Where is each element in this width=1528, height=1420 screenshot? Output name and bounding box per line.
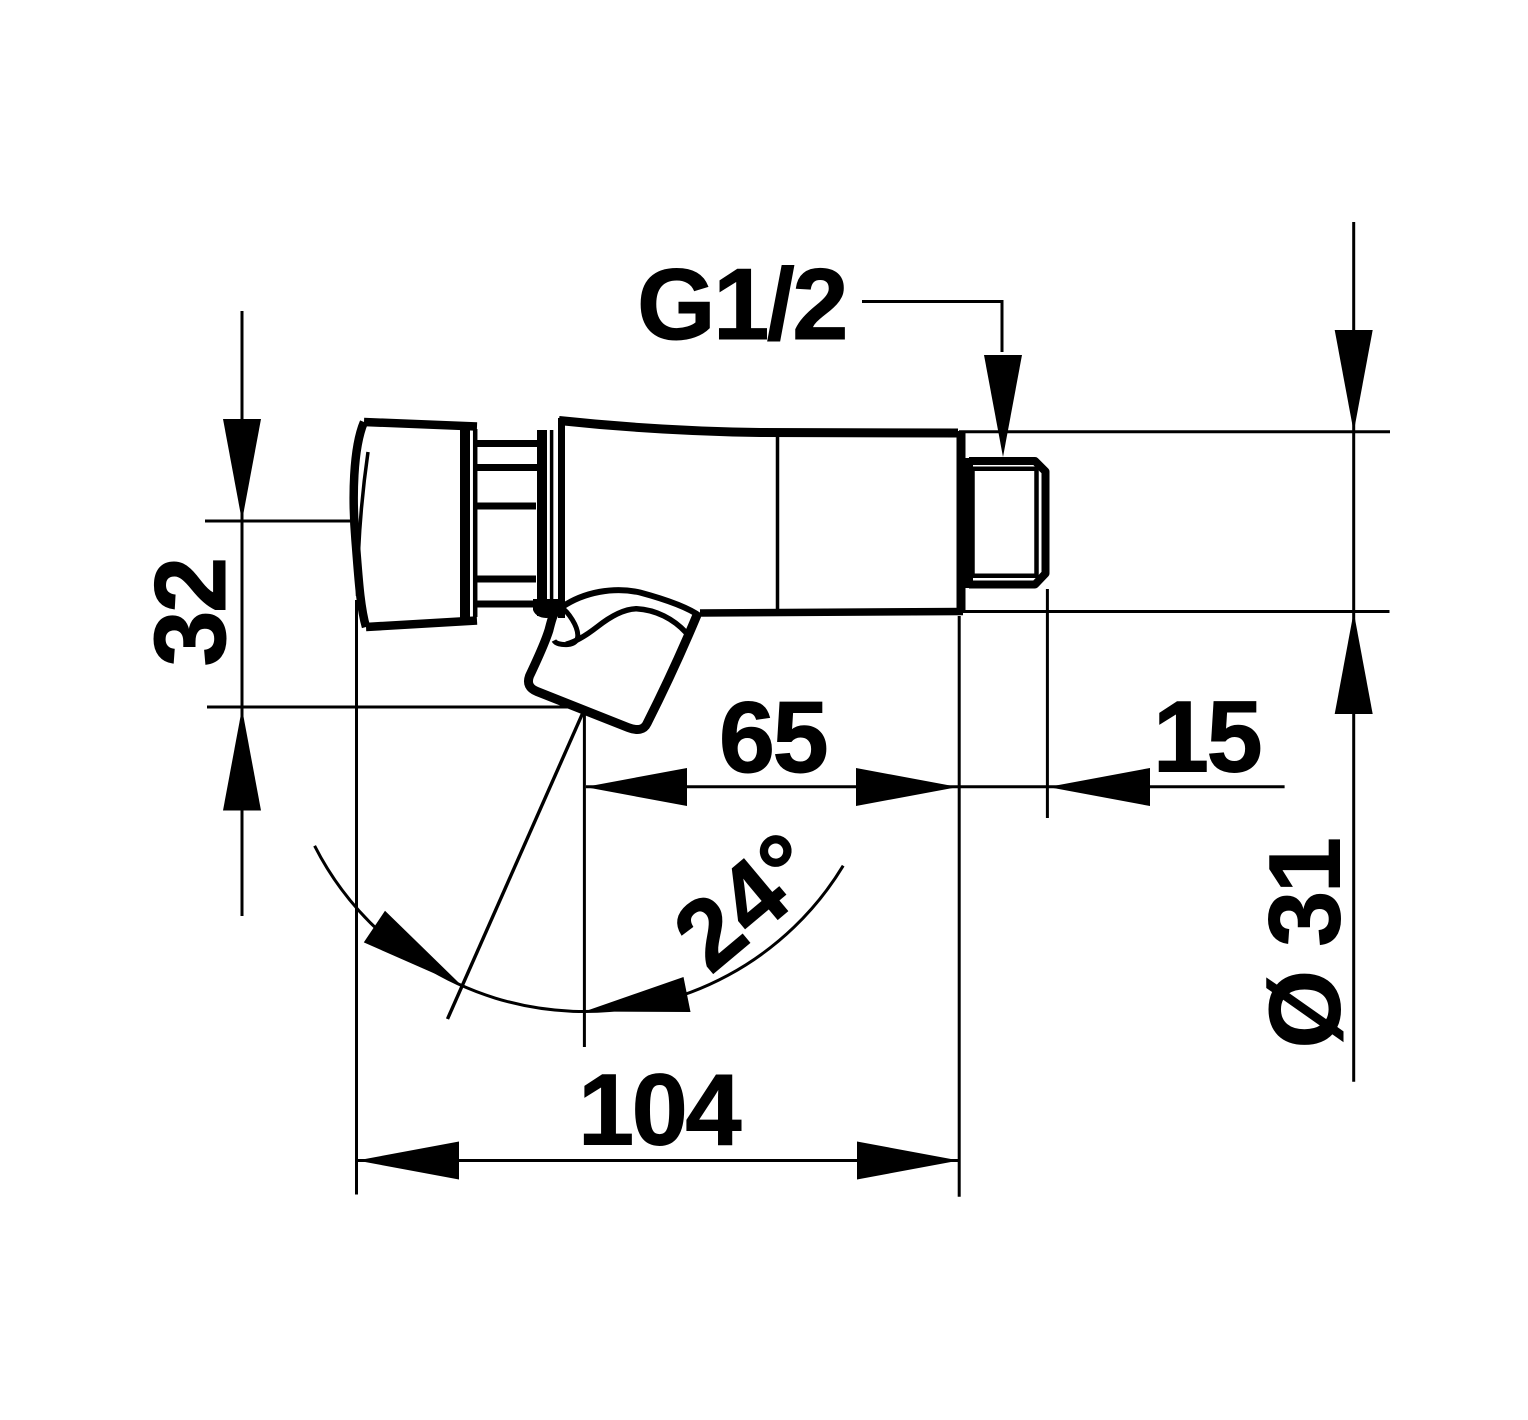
- dimension 32 arrow lower: [223, 709, 261, 811]
- dimension diameter 31 line: [1352, 222, 1355, 1082]
- angle 24 slant line: [448, 709, 585, 1019]
- svg-text:65: 65: [719, 682, 827, 794]
- dimension 104 extension line right: [958, 616, 961, 1197]
- angle 24 reference vertical line: [583, 708, 586, 1047]
- dimension 104 extension line left: [355, 600, 358, 1195]
- angle 24 arrow left: [364, 911, 462, 986]
- svg-text:15: 15: [1153, 682, 1261, 794]
- dimension 32 extension line lower: [207, 706, 584, 709]
- flange: [542, 430, 552, 616]
- dimension diameter 31 extension line upper: [959, 430, 1390, 433]
- G1/2 leader arrow: [984, 355, 1022, 457]
- push button cap: [354, 422, 477, 627]
- dimension 65 arrow left: [585, 768, 687, 806]
- dimension 104 arrow left: [357, 1142, 459, 1180]
- dimension 15 extension line: [1046, 589, 1049, 818]
- neck grooves: [477, 444, 538, 605]
- threaded nipple G1/2: [969, 458, 1046, 588]
- dimension diameter 31 extension line lower: [963, 610, 1390, 613]
- dimension 65/15 line: [586, 785, 1285, 788]
- dimension 65 arrow right: [856, 768, 958, 806]
- dimension 32 line: [241, 311, 244, 916]
- angle 24 arrow right: [584, 977, 690, 1012]
- dimension 15 arrow: [1048, 768, 1150, 806]
- dimension 104 arrow right: [857, 1142, 959, 1180]
- dimension diameter 31 arrow upper: [1335, 330, 1373, 432]
- outlet spout: [528, 590, 700, 729]
- svg-text:G1/2: G1/2: [637, 249, 846, 361]
- svg-text:Ø 31: Ø 31: [1250, 839, 1362, 1048]
- angle 24 arc: [315, 846, 844, 1012]
- svg-text:104: 104: [578, 1055, 741, 1167]
- dimension 104 line: [358, 1159, 958, 1162]
- valve body: [559, 418, 963, 618]
- dimension 32 arrow upper: [223, 419, 261, 521]
- svg-text:32: 32: [135, 559, 247, 666]
- dimension diameter 31 arrow lower: [1335, 612, 1373, 714]
- dimension 32 extension line upper: [205, 520, 352, 523]
- G1/2 leader line: [862, 302, 1002, 353]
